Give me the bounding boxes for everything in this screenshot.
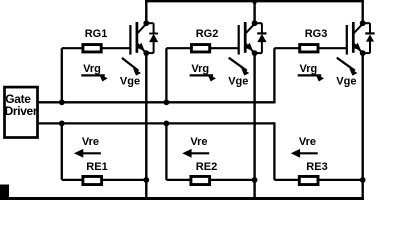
wire rail2 emitter return — [38, 122, 274, 124]
Q3 body bar — [352, 22, 355, 53]
node junction RE3/emitter — [360, 177, 366, 183]
arrow Vre stage2 — [182, 149, 209, 158]
Q3 gate bar — [346, 25, 348, 55]
svg-text:Vge: Vge — [228, 75, 248, 87]
wire vertical stage3 upper (rail1 end up to RG3) — [273, 48, 275, 103]
gate driver box U1 — [5, 87, 38, 137]
svg-text:RE1: RE1 — [86, 161, 107, 173]
wire RG3 row — [274, 47, 346, 49]
wire collector vertical stage2 — [253, 0, 255, 23]
svg-text:Vrg: Vrg — [300, 63, 318, 75]
svg-text:Vrg: Vrg — [83, 63, 101, 75]
node junction RE2/emitter — [252, 177, 258, 183]
corner block bottom-left — [0, 185, 9, 201]
arrow Vre stage3 — [291, 149, 318, 158]
svg-text:Driver: Driver — [5, 104, 38, 118]
Q2 collector diagonal — [246, 24, 255, 33]
node junction rail2/stage2 — [164, 121, 170, 127]
top collector bus wire — [145, 0, 364, 2]
node junction RE1/emitter — [143, 177, 149, 183]
Q1 collector node dot — [143, 20, 149, 26]
IGBT Q1 — [130, 20, 149, 56]
diode D3 freewheel — [363, 23, 375, 53]
svg-text:RG1: RG1 — [85, 28, 108, 40]
wire vertical stage3 lower (rail2 end down to RE3) — [273, 122, 275, 180]
bottom emitter bus bar (appears black in raw image) — [0, 197, 364, 200]
resistor RG1 — [83, 45, 101, 52]
Q1 body bar — [136, 22, 139, 53]
Q3 collector diagonal — [354, 24, 363, 33]
resistor RG2 — [191, 45, 209, 52]
Q1 collector diagonal — [137, 24, 146, 33]
svg-text:Vre: Vre — [82, 136, 99, 148]
arrow Vre stage1 — [74, 149, 101, 158]
svg-text:RG2: RG2 — [196, 28, 219, 40]
svg-text:Vre: Vre — [190, 136, 207, 148]
wire vertical stage2 lower (rail2 to RE2) — [165, 123, 167, 179]
Q3 emitter diagonal with arrow — [354, 44, 363, 53]
arrow Vge stage3 — [337, 58, 358, 76]
Q1 emitter node dot — [143, 50, 149, 56]
resistor RE1 — [83, 176, 102, 184]
svg-text:Vge: Vge — [120, 75, 140, 87]
node junction rail1/stage2 — [164, 99, 170, 105]
svg-text:Vge: Vge — [336, 75, 356, 87]
wire RE1 row — [62, 179, 147, 181]
wire RG2 row — [166, 47, 238, 49]
svg-text:RG3: RG3 — [305, 28, 328, 40]
arrow Vrg stage1 — [81, 74, 107, 81]
IGBT Q3 — [347, 20, 366, 56]
Q1 emitter diagonal with arrow — [137, 44, 146, 53]
arrow Vge stage2 — [229, 58, 250, 76]
node junction rail1/stage1 — [59, 99, 65, 105]
arrow Vrg stage2 — [190, 74, 216, 81]
wire rail1 gate drive output — [38, 101, 274, 103]
Q2 body bar — [244, 22, 247, 53]
wire emitter vertical stage2 — [253, 53, 255, 200]
wire collector vertical stage3 — [362, 0, 364, 23]
svg-text:RE3: RE3 — [306, 161, 327, 173]
svg-text:Vrg: Vrg — [191, 63, 209, 75]
Q1 gate bar — [129, 25, 131, 55]
Q3 collector node dot — [360, 20, 366, 26]
diode D1 freewheel — [146, 23, 158, 53]
wire collector vertical stage1 — [145, 0, 147, 23]
wire vertical stage1 lower (rail2 to RE1) — [61, 123, 63, 179]
diode D2 freewheel — [255, 23, 267, 53]
node junction rail2/stage1 — [59, 121, 65, 127]
resistor RG3 — [300, 45, 318, 52]
wire RE3 row — [274, 179, 362, 181]
svg-text:Vre: Vre — [299, 136, 316, 148]
wire RE2 row — [166, 179, 254, 181]
wire vertical stage1 upper (rail1 to RG1) — [61, 48, 63, 102]
wire emitter vertical stage3 — [362, 53, 364, 200]
wire vertical stage2 upper (rail1 to RG2) — [165, 48, 167, 102]
node junction top bus / stage2 collector — [253, 0, 257, 4]
arrow Vrg stage3 — [298, 74, 324, 81]
wire emitter vertical stage1 — [145, 53, 147, 200]
svg-text:RE2: RE2 — [196, 161, 217, 173]
resistor RE3 — [299, 176, 318, 184]
Q2 gate bar — [238, 25, 240, 55]
arrow Vge stage1 — [122, 58, 141, 76]
Q2 emitter node dot — [252, 50, 258, 56]
wire RG1 row — [62, 47, 131, 49]
resistor RE2 — [191, 176, 210, 184]
Q2 collector node dot — [252, 20, 258, 26]
IGBT Q2 — [239, 20, 258, 56]
Q2 emitter diagonal with arrow — [246, 44, 255, 53]
Q3 emitter node dot — [360, 50, 366, 56]
